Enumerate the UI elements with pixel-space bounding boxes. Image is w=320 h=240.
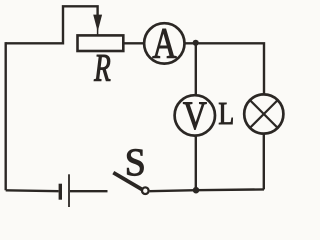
- junction node top: [193, 40, 199, 46]
- svg-text:L: L: [218, 97, 234, 132]
- battery short negative plate: [59, 184, 62, 200]
- wire: battery to switch: [70, 190, 108, 192]
- svg-text:A: A: [152, 20, 176, 68]
- lamp cross line 1: [250, 101, 277, 128]
- slider arrow of rheostat: [93, 15, 102, 32]
- wire: resistor to ammeter: [123, 42, 145, 44]
- junction node bottom: [193, 187, 200, 194]
- wire: slider riser and jog over to arrow drop: [63, 6, 98, 44]
- lamp cross line 2: [250, 101, 277, 128]
- svg-text:R: R: [93, 47, 110, 90]
- ammeter A circle: [144, 23, 184, 63]
- resistor R body: [78, 35, 124, 51]
- battery long positive plate: [68, 174, 70, 207]
- svg-text:V: V: [183, 94, 207, 139]
- wire: ammeter to top-right corner and down to lamp: [185, 43, 265, 94]
- slider contact line to resistor top: [97, 28, 99, 35]
- lamp L circle: [244, 94, 283, 133]
- wire: bottom right run from switch to corner: [150, 189, 264, 191]
- voltmeter V circle: [175, 95, 215, 135]
- switch contact circle: [142, 187, 149, 194]
- wire: left border vertical: [4, 42, 6, 190]
- svg-text:S: S: [125, 142, 146, 185]
- wire: bottom-left to battery: [6, 189, 59, 192]
- wire: voltmeter down to bottom junction: [195, 136, 197, 191]
- wire: lamp down to bottom-right corner: [263, 134, 265, 190]
- switch blade: [113, 173, 142, 190]
- wire: junction down to voltmeter: [195, 43, 197, 95]
- wire: top-left horizontal from left border to slider riser: [6, 42, 63, 44]
